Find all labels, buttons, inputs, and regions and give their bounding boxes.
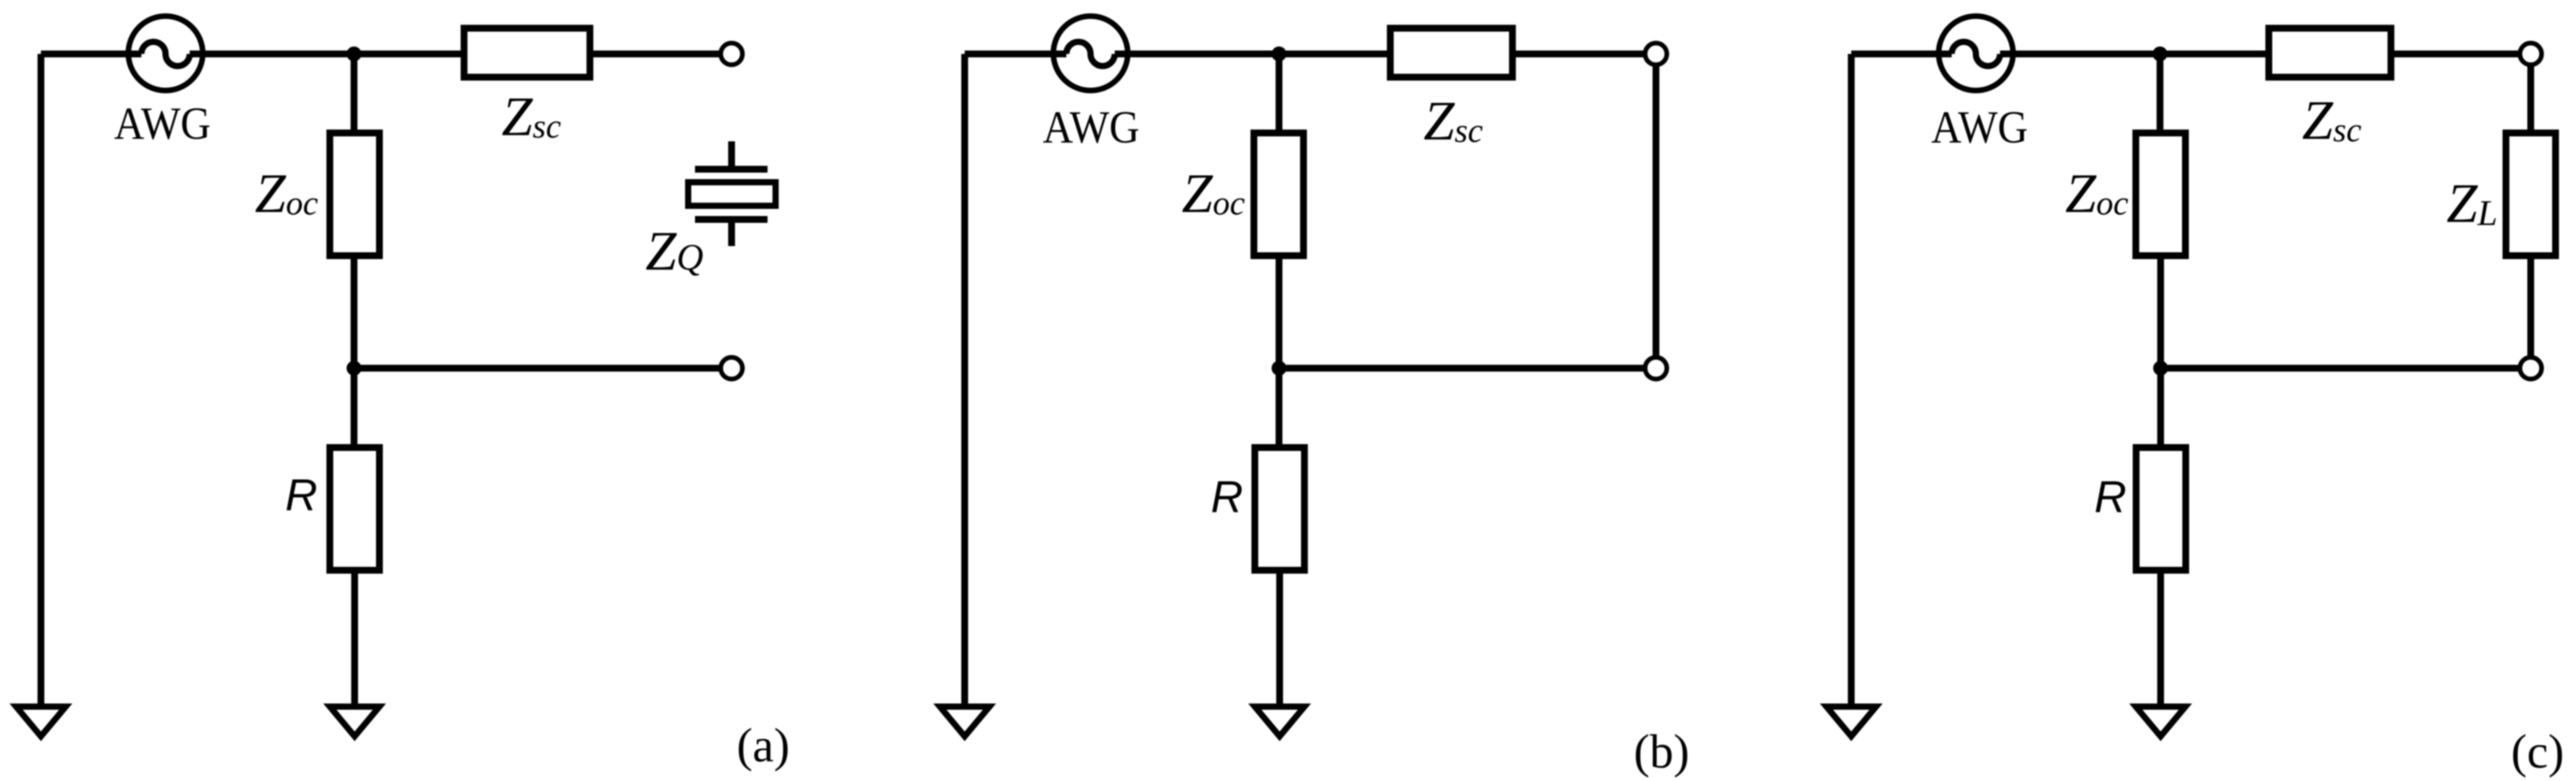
svg-text:Zoc: Zoc xyxy=(255,163,318,224)
svg-text:ZL: ZL xyxy=(2446,173,2497,234)
svg-text:Zsc: Zsc xyxy=(1423,90,1483,152)
svg-text:AWG: AWG xyxy=(114,99,211,149)
svg-text:(c): (c) xyxy=(2511,725,2564,778)
svg-text:R: R xyxy=(2094,472,2127,522)
svg-text:AWG: AWG xyxy=(1043,102,1140,153)
svg-text:R: R xyxy=(285,470,317,520)
svg-text:Zsc: Zsc xyxy=(502,86,561,148)
svg-text:(a): (a) xyxy=(737,718,789,772)
svg-text:Zoc: Zoc xyxy=(1182,163,1245,224)
svg-text:Zsc: Zsc xyxy=(2302,90,2361,151)
svg-text:(b): (b) xyxy=(1634,725,1689,778)
svg-text:Zoc: Zoc xyxy=(2065,163,2128,224)
svg-text:AWG: AWG xyxy=(1931,102,2028,153)
svg-text:ZQ: ZQ xyxy=(645,221,703,282)
svg-text:R: R xyxy=(1211,472,1243,522)
